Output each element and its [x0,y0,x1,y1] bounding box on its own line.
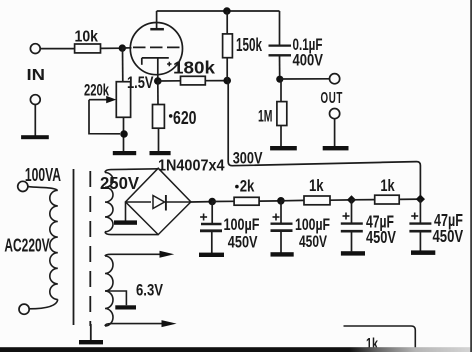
wire grid node to tube [122,47,131,49]
transformer secondary 6.3V winding [105,256,113,326]
terminal AC bottom [19,304,29,314]
node output [276,76,283,83]
svg-text:IN: IN [27,67,46,84]
wire F4 to C5 [419,199,421,223]
wire primary bottom to AC bottom [29,300,58,309]
wire F2 to C3 [280,201,282,223]
resistor R5 1M [258,102,287,126]
wire plate top rail [157,10,280,12]
wire R5 to ground [280,126,282,147]
svg-text:180k: 180k [173,58,215,78]
ground C5 [411,250,435,255]
svg-text:100VA: 100VA [25,165,61,185]
wire bottom right stub [344,326,416,352]
svg-text:450V: 450V [299,232,327,251]
svg-text:2k: 2k [240,176,255,195]
wire out node to R5 [280,79,282,101]
wire shield to ground [90,324,92,341]
ground C2 [199,253,224,257]
bottom scan bar [0,347,472,352]
svg-text:1M: 1M [258,107,273,126]
terminal OUT bottom [330,109,340,119]
wire F1 to C2 [211,202,213,224]
wire center tap to ground [105,291,126,305]
svg-text:150k: 150k [236,35,263,55]
wire cathode down to R3 [157,81,159,105]
bridge rectifier D1 1N4007x4 [126,158,225,235]
svg-text:450V: 450V [433,226,464,246]
resistor R2 180k [167,58,215,85]
wire IN bottom to ground [34,105,36,136]
svg-text:AC220V: AC220V [4,234,50,255]
wire heater top arrow [105,251,174,258]
ground R3 [150,151,171,155]
terminal OUT top [330,74,340,84]
wire C5 to ground [419,231,421,251]
resistor R6 2k [234,176,259,205]
transformer shield dashed [89,171,91,326]
wire R1 to grid node [101,47,123,49]
svg-text:250V: 250V [100,173,139,193]
svg-text:100µF: 100µF [224,215,260,234]
wire grid node down to pot [122,48,124,82]
node cathode [154,77,162,85]
svg-text:OUT: OUT [321,90,344,107]
wire R7 to node F3 [330,199,352,201]
wire 250V top to bridge [105,169,158,173]
right scan border [470,0,472,352]
wire R2 to node N1 [205,80,227,82]
svg-text:1.5V: 1.5V [127,73,154,92]
svg-text:1k: 1k [309,176,324,195]
wire IN to R1 [40,48,74,50]
wire C4 to ground [351,231,353,251]
ground C3 [271,252,294,256]
resistor R1 10k [75,29,101,53]
svg-text:220k: 220k [84,81,109,100]
triode V1 [130,11,182,81]
wire pot bottom down [123,117,125,151]
transformer core [73,169,75,325]
ground center tap [115,305,136,309]
wire bridge out to node F1 [191,201,212,203]
svg-text:620: 620 [173,108,197,128]
resistor R8 1k [375,176,400,204]
wire C2 to ground [211,231,213,253]
wire F1 to R6 [212,200,234,202]
ground shield [79,340,103,344]
wire bridge left corner to ground [125,202,127,221]
svg-text:1N4007x4: 1N4007x4 [158,158,225,175]
transformer secondary 250V winding [105,172,113,231]
terminal AC top [18,181,28,191]
wiper arrow of RP [89,96,120,134]
wire AC top to primary [28,187,57,190]
node N1 [223,77,231,85]
node F4 [416,194,425,203]
wire F3 to C4 [351,200,353,223]
wire F3 to R8 [352,199,375,201]
capacitor C3 100uF [271,214,331,252]
terminal IN top [30,44,40,54]
resistor R7 1k [304,176,330,205]
resistor R4 150k [223,34,263,58]
svg-text:450V: 450V [228,233,258,252]
ground IN [21,135,49,139]
transformer T1 primary winding [50,190,58,299]
wire R6 to node F2 [259,200,281,202]
wire heater bottom arrow [105,320,177,327]
wire out node to OUT terminal [280,78,330,80]
svg-text:300V: 300V [233,149,263,168]
node grid junction [119,44,126,51]
potentiometer RP 220k [84,81,131,118]
svg-text:1k: 1k [380,176,395,195]
wire N1 to 300V rail [228,81,420,199]
node F3 [347,195,356,204]
ground R5 [270,146,297,150]
node top rail [223,7,231,15]
ground C4 [341,251,365,255]
wire rail to C1 [279,11,281,45]
terminal IN bottom [30,95,40,105]
wire F2 to R7 [281,199,304,201]
capacitor C2 100uF [200,214,260,252]
wire rail to R4 [226,11,228,34]
wire cathode to R2 [158,80,181,82]
wire R8 to node F4 [399,198,420,200]
wire OUT bottom to ground [334,119,336,147]
wire C1 to out node [279,55,281,79]
ground OUT [323,146,349,150]
svg-text:10k: 10k [75,29,99,46]
node pot bottom [120,130,128,138]
capacitor C4 47uF [341,212,396,248]
capacitor C1 0.1uF [269,35,324,70]
ground pot [113,151,136,155]
svg-text:400V: 400V [293,51,324,70]
capacitor C5 47uF [409,210,463,246]
wire R3 to ground [158,128,160,151]
node F1 [208,198,216,206]
svg-text:6.3V: 6.3V [136,281,164,300]
svg-text:450V: 450V [366,227,396,247]
node F2 [277,197,285,205]
wire C3 to ground [280,231,282,253]
wire R4 to N1 [226,58,228,81]
wire 250V bottom to bridge [105,232,158,235]
resistor R3 620 [153,105,197,129]
ground bridge [114,220,137,224]
